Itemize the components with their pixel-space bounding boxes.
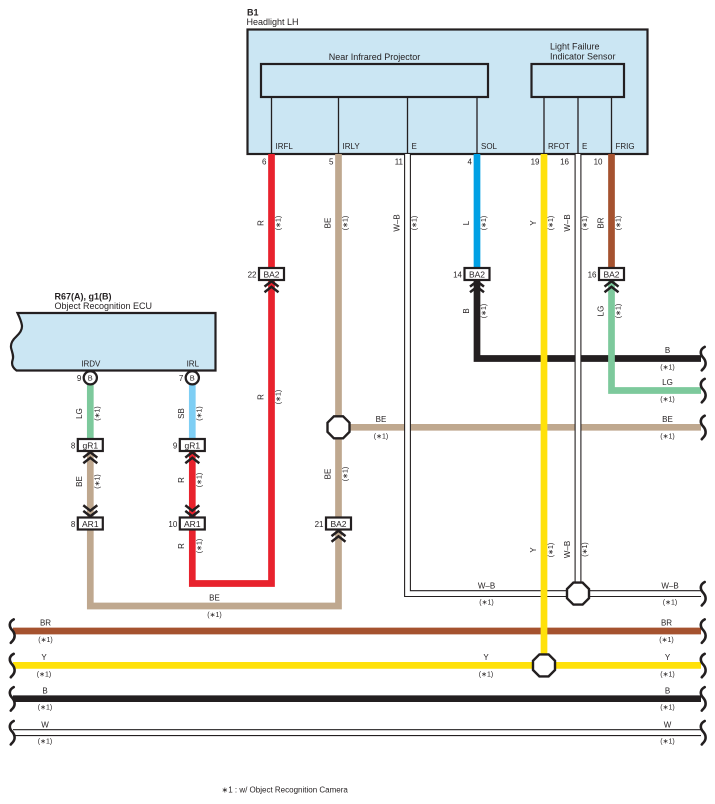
svg-text:E: E [582, 142, 587, 151]
wire label LG pin IRDV [75, 406, 101, 420]
svg-text:SOL: SOL [481, 142, 498, 151]
label Y bus mid [479, 653, 493, 678]
wire label B below 14 BA2 [462, 304, 488, 318]
svg-text:(∗1): (∗1) [197, 539, 204, 553]
label W-B right end [661, 581, 678, 606]
svg-text:(∗1): (∗1) [660, 397, 674, 404]
svg-text:BE: BE [323, 469, 332, 480]
wire label BE below junction [323, 467, 349, 481]
svg-text:IRL: IRL [187, 360, 200, 369]
svg-text:(∗1): (∗1) [660, 433, 674, 440]
connector 14 BA2 [453, 268, 489, 280]
svg-text:W–B: W–B [563, 541, 572, 558]
label BE bottom horizontal [207, 594, 221, 619]
junction node Y [533, 654, 555, 676]
svg-text:(∗1): (∗1) [481, 304, 488, 318]
cut mark W left [10, 721, 15, 745]
svg-text:B1: B1 [247, 8, 259, 18]
wire Y pin 19 RFOT down to junction [541, 154, 548, 665]
svg-text:8: 8 [71, 441, 76, 450]
svg-text:W–B: W–B [478, 581, 495, 590]
svg-text:(∗1): (∗1) [276, 216, 283, 230]
svg-text:16: 16 [588, 270, 597, 279]
svg-text:Light Failure: Light Failure [550, 42, 600, 52]
wire label W-B lower segment [563, 541, 589, 558]
svg-text:∗1 : w/ Object Recognition Cam: ∗1 : w/ Object Recognition Camera [222, 786, 349, 795]
light failure indicator sensor inner box [532, 64, 625, 97]
svg-text:6: 6 [262, 158, 267, 167]
wire label W-B (top right) [563, 214, 589, 231]
wire R net IRFL down through 22 BA2 to AR1-10 [192, 154, 271, 584]
svg-text:Indicator Sensor: Indicator Sensor [550, 52, 616, 62]
cut mark Y right [701, 654, 706, 678]
label Y bus right [660, 653, 674, 678]
svg-text:BE: BE [376, 415, 387, 424]
svg-text:BR: BR [40, 619, 51, 628]
wire W-B net pin 11 E down and right to edge [408, 154, 702, 594]
svg-text:IRDV: IRDV [81, 360, 101, 369]
label LG right end [660, 378, 674, 403]
svg-text:W–B: W–B [563, 214, 572, 231]
connector 10 AR1 [168, 518, 204, 530]
svg-text:4: 4 [468, 158, 473, 167]
wire label BE (top) [323, 216, 349, 230]
svg-text:LG: LG [596, 306, 605, 317]
svg-text:(∗1): (∗1) [37, 671, 51, 678]
svg-text:gR1: gR1 [83, 440, 99, 450]
connector 8 gR1 [71, 439, 103, 451]
near infrared projector inner box [261, 64, 488, 97]
label Y bus left [37, 653, 51, 678]
svg-text:BE: BE [75, 476, 84, 487]
label B bus right [660, 686, 674, 711]
svg-text:10: 10 [168, 520, 177, 529]
svg-text:(∗1): (∗1) [95, 406, 102, 420]
wire L pin 4 SOL [474, 154, 481, 268]
svg-text:9: 9 [77, 374, 82, 383]
svg-text:BA2: BA2 [263, 269, 279, 279]
internal stub wire pin FRIG [611, 97, 613, 154]
cut mark BE right [701, 416, 706, 440]
svg-text:(∗1): (∗1) [481, 216, 488, 230]
svg-text:Near Infrared Projector: Near Infrared Projector [329, 52, 421, 62]
wire label LG below 16 BA2 [596, 304, 622, 318]
connector arrows above 8 AR1 [83, 505, 97, 516]
connector arrows below 9 gR1 [185, 452, 199, 463]
svg-text:Object Recognition ECU: Object Recognition ECU [55, 301, 153, 311]
svg-text:(∗1): (∗1) [374, 433, 388, 440]
cut mark B bus left [10, 687, 15, 711]
wire BE between gR1-8 and AR1-8 [87, 450, 94, 519]
svg-text:(∗1): (∗1) [660, 365, 674, 372]
svg-text:BA2: BA2 [603, 269, 619, 279]
wire W-B pin 16 E down to junction [575, 154, 582, 594]
svg-text:B: B [462, 308, 471, 313]
wire LG net from 16 BA2 to right edge [612, 280, 702, 391]
svg-text:R: R [177, 477, 186, 483]
svg-text:W: W [41, 720, 49, 729]
svg-text:5: 5 [329, 158, 334, 167]
svg-text:(∗1): (∗1) [548, 216, 555, 230]
wire R between gR1-9 and AR1-10 [189, 450, 196, 519]
svg-text:LG: LG [75, 408, 84, 419]
svg-text:R67(A), g1(B): R67(A), g1(B) [55, 292, 112, 302]
internal stub wire pin E-16 [577, 97, 579, 154]
bus wire B [13, 695, 701, 702]
wire label R between gR1 and AR1 [177, 473, 203, 487]
svg-text:22: 22 [248, 270, 257, 279]
wire BR pin 10 FRIG [608, 154, 615, 280]
headlight LH component box B1 [248, 30, 648, 155]
internal stub wire pin IRLY [338, 97, 340, 154]
label BR bus right [659, 619, 673, 644]
svg-text:(∗1): (∗1) [616, 304, 623, 318]
ECU pin 7 circle B [179, 371, 199, 384]
svg-text:gR1: gR1 [185, 440, 201, 450]
svg-text:W–B: W–B [392, 214, 401, 231]
connector arrows below 14 BA2 [470, 281, 484, 292]
connector arrows above 10 AR1 [185, 505, 199, 516]
cut mark Y left [10, 654, 15, 678]
svg-text:(∗1): (∗1) [343, 216, 350, 230]
svg-text:R: R [177, 543, 186, 549]
svg-text:RFOT: RFOT [548, 142, 570, 151]
wire label Y (top) [529, 216, 555, 230]
connector 8 AR1 [71, 518, 103, 530]
svg-text:LG: LG [662, 378, 673, 387]
wire B black net from 14 BA2 to right edge [477, 280, 701, 359]
svg-text:R: R [256, 220, 265, 226]
svg-text:(∗1): (∗1) [276, 390, 283, 404]
svg-text:Y: Y [41, 653, 47, 662]
svg-text:R: R [256, 394, 265, 400]
svg-text:B: B [665, 686, 670, 695]
cut mark BR left [10, 619, 15, 643]
svg-text:L: L [462, 220, 471, 225]
svg-text:(∗1): (∗1) [38, 739, 52, 746]
svg-text:IRLY: IRLY [343, 142, 361, 151]
svg-text:BR: BR [596, 217, 605, 228]
svg-text:(∗1): (∗1) [660, 705, 674, 712]
connector 21 BA2 [315, 518, 351, 530]
bus wire W [13, 729, 701, 736]
wire label R below AR1 [177, 539, 203, 553]
label W bus left [38, 720, 52, 745]
wire label R mid segment [256, 390, 282, 404]
svg-text:W: W [664, 720, 672, 729]
svg-text:(∗1): (∗1) [660, 739, 674, 746]
svg-text:E: E [412, 142, 417, 151]
connector arrows below 21 BA2 [332, 531, 346, 542]
cut mark LG right [701, 379, 706, 403]
connector 16 BA2 [588, 268, 624, 280]
cut mark W right [701, 721, 706, 745]
svg-text:Y: Y [529, 547, 538, 553]
wire label W-B (top left) [392, 214, 418, 231]
svg-text:(∗1): (∗1) [38, 637, 52, 644]
connector arrows below 22 BA2 [265, 281, 279, 292]
svg-text:(∗1): (∗1) [663, 600, 677, 607]
wire label L [462, 216, 488, 230]
svg-text:Y: Y [665, 653, 671, 662]
label BE right end [660, 415, 674, 440]
svg-text:(∗1): (∗1) [207, 612, 221, 619]
svg-text:W–B: W–B [661, 581, 678, 590]
svg-text:FRIG: FRIG [616, 142, 635, 151]
svg-text:(∗1): (∗1) [659, 637, 673, 644]
connector 9 gR1 [173, 439, 205, 451]
wire SB pin IRL [189, 378, 196, 440]
svg-text:BE: BE [662, 415, 673, 424]
wire BE horizontal to right edge [339, 424, 702, 431]
junction node W-B [567, 583, 589, 605]
svg-text:(∗1): (∗1) [479, 671, 493, 678]
svg-text:21: 21 [315, 520, 324, 529]
svg-text:IRFL: IRFL [276, 142, 294, 151]
internal stub wire pin IRFL [271, 97, 273, 154]
svg-text:B: B [88, 374, 93, 383]
svg-text:Headlight LH: Headlight LH [247, 17, 299, 27]
wire label SB pin IRL [177, 406, 203, 420]
internal stub wire pin RFOT [543, 97, 545, 154]
svg-text:(∗1): (∗1) [548, 543, 555, 557]
ECU pin 9 circle B [77, 371, 97, 384]
junction node BE [328, 416, 350, 438]
label B bus left [38, 686, 52, 711]
cut mark B right [701, 347, 706, 371]
cut mark W-B right [701, 582, 706, 606]
svg-text:8: 8 [71, 520, 76, 529]
svg-text:11: 11 [395, 158, 404, 167]
svg-text:AR1: AR1 [82, 519, 99, 529]
wire label BR (top) [596, 216, 622, 230]
svg-text:14: 14 [453, 270, 462, 279]
internal stub wire pin SOL [476, 97, 478, 154]
svg-text:Y: Y [529, 220, 538, 226]
svg-text:(∗1): (∗1) [38, 705, 52, 712]
bus wire BR [13, 628, 701, 635]
svg-text:16: 16 [560, 158, 569, 167]
svg-text:19: 19 [531, 158, 540, 167]
svg-text:(∗1): (∗1) [197, 473, 204, 487]
svg-text:(∗1): (∗1) [660, 671, 674, 678]
svg-text:Y: Y [483, 653, 489, 662]
svg-text:10: 10 [594, 158, 603, 167]
svg-text:(∗1): (∗1) [479, 600, 493, 607]
object recognition ECU box R67 [11, 313, 216, 371]
svg-text:(∗1): (∗1) [197, 406, 204, 420]
label W bus right [660, 720, 674, 745]
label B right end [660, 346, 674, 371]
svg-text:(∗1): (∗1) [616, 216, 623, 230]
svg-text:(∗1): (∗1) [412, 216, 419, 230]
svg-text:(∗1): (∗1) [343, 467, 350, 481]
wire BE net IRLY through octagon down to bottom and left to AR1 [90, 154, 338, 606]
wire label R (top) [256, 216, 282, 230]
connector arrows below 8 gR1 [83, 452, 97, 463]
svg-text:B: B [665, 346, 670, 355]
svg-text:(∗1): (∗1) [582, 216, 589, 230]
label W-B mid [478, 581, 495, 606]
wire label Y lower segment [529, 543, 555, 557]
connector 22 BA2 [248, 268, 284, 280]
bus wire Y [13, 662, 701, 669]
svg-text:BA2: BA2 [469, 269, 485, 279]
svg-text:(∗1): (∗1) [95, 474, 102, 488]
svg-text:BR: BR [661, 619, 672, 628]
svg-text:BE: BE [209, 594, 220, 603]
cut mark BR right [701, 619, 706, 643]
svg-text:AR1: AR1 [184, 519, 201, 529]
wire LG pin IRDV [87, 378, 94, 440]
svg-text:SB: SB [177, 408, 186, 419]
internal stub wire pin E-11 [407, 97, 409, 154]
svg-text:B: B [190, 374, 195, 383]
svg-text:BE: BE [323, 218, 332, 229]
label BR bus left [38, 619, 52, 644]
svg-text:7: 7 [179, 374, 184, 383]
connector arrows below 16 BA2 [605, 281, 619, 292]
svg-text:B: B [42, 686, 47, 695]
cut mark B bus right [701, 687, 706, 711]
label BE mid [374, 415, 388, 440]
svg-text:BA2: BA2 [330, 519, 346, 529]
wire label BE between gR1 and AR1 [75, 474, 101, 488]
svg-text:(∗1): (∗1) [582, 542, 589, 556]
svg-text:9: 9 [173, 441, 178, 450]
